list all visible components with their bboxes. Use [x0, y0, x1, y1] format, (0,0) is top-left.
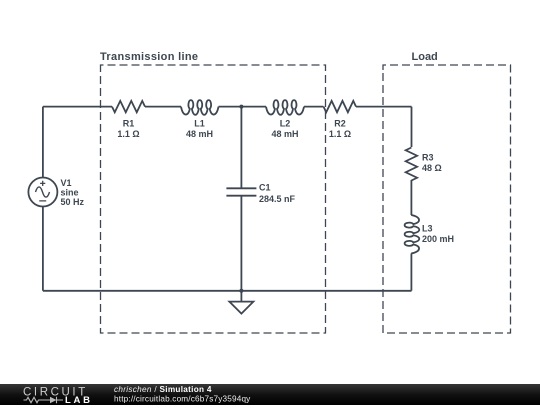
svg-text:C1: C1	[259, 183, 271, 193]
svg-text:1.1 Ω: 1.1 Ω	[329, 129, 351, 139]
svg-text:R2: R2	[334, 119, 346, 129]
svg-text:http://circuitlab.com/c6b7s7y3: http://circuitlab.com/c6b7s7y3594qy	[114, 394, 251, 403]
svg-text:V1: V1	[61, 178, 72, 188]
svg-text:48 mH: 48 mH	[186, 129, 213, 139]
svg-text:48 Ω: 48 Ω	[422, 163, 442, 173]
svg-text:R1: R1	[123, 119, 135, 129]
svg-text:Transmission line: Transmission line	[100, 51, 198, 63]
svg-text:L1: L1	[194, 119, 205, 129]
svg-text:284.5 nF: 284.5 nF	[259, 194, 296, 204]
svg-text:50 Hz: 50 Hz	[61, 197, 85, 207]
svg-text:chrischen / Simulation 4: chrischen / Simulation 4	[114, 385, 212, 394]
svg-text:L3: L3	[422, 224, 433, 234]
svg-text:L2: L2	[280, 119, 291, 129]
svg-text:1.1 Ω: 1.1 Ω	[117, 129, 139, 139]
svg-text:LAB: LAB	[65, 395, 93, 405]
svg-text:48 mH: 48 mH	[271, 129, 298, 139]
svg-text:Load: Load	[412, 51, 438, 63]
svg-text:sine: sine	[61, 188, 79, 198]
svg-text:R3: R3	[422, 153, 434, 163]
svg-text:200 mH: 200 mH	[422, 234, 454, 244]
